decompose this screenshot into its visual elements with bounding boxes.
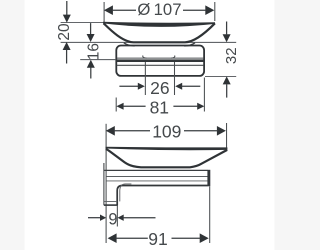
plate thin groove line: [117, 64, 204, 66]
svg-text:109: 109: [152, 121, 181, 141]
arm end cap: [207, 170, 210, 187]
dimension 81 right arrow: [197, 103, 204, 110]
extension line at groove level: [80, 59, 116, 61]
extension line at bowl bottom level: [61, 41, 237, 43]
bracket back line (wall side): [103, 163, 105, 205]
svg-text:9: 9: [108, 210, 117, 228]
arm bottom edge: [122, 185, 208, 187]
wall plate (top view outline): [116, 46, 204, 76]
dimension 91 right arrow: [200, 233, 209, 243]
svg-text:91: 91: [148, 229, 167, 249]
arm groove line 2: [107, 180, 208, 182]
dimension 9 right extension: [116, 206, 118, 227]
dimension Ø107 left extension line: [103, 2, 105, 23]
dish bowl underside (top view): [104, 23, 215, 42]
elbow inner: [120, 184, 132, 202]
dimension 20 bottom arrow: [63, 42, 71, 50]
dish bowl underside (side view): [106, 149, 228, 167]
svg-text:32: 32: [223, 47, 240, 64]
plate thick groove band: [117, 57, 204, 59]
right slot hook: [171, 56, 175, 59]
dimension 26 left arrow: [119, 85, 138, 87]
dimension 81 right extension: [203, 78, 205, 112]
white content panel: [25, 0, 275, 250]
dish rim (top view): [103, 22, 215, 27]
dimension 91 left arrow: [108, 233, 117, 243]
svg-text:Ø 107: Ø 107: [137, 0, 181, 19]
dish rim (side view): [106, 147, 228, 151]
arm groove line 1: [107, 176, 208, 178]
dimension Ø107 right arrow: [205, 5, 214, 15]
dimension 109 right extension: [226, 123, 228, 149]
dimension 91 right extension: [209, 187, 211, 244]
left fillet bowl-to-plate: [124, 43, 135, 46]
left screw slot vertical / 26 extension: [144, 62, 146, 95]
extension line at plate bottom right: [205, 75, 236, 77]
svg-text:20: 20: [56, 23, 73, 41]
dimension 9 right arrow: [118, 215, 124, 221]
dimension 20 top arrow: [66, 1, 68, 15]
dimension 32 top arrow: [226, 22, 228, 35]
dimension Ø107 left arrow: [104, 5, 113, 15]
right screw slot vertical / 26 extension: [174, 62, 176, 95]
svg-text:16: 16: [86, 43, 103, 60]
dimension 32 bottom arrow: [223, 76, 231, 84]
foot upper line: [104, 201, 117, 203]
rim left extension line: [61, 22, 104, 24]
dimension 9 left arrow: [88, 217, 100, 219]
left slot hook: [143, 56, 147, 59]
dimension Ø107 right extension line: [214, 2, 216, 21]
elbow outer: [117, 186, 122, 206]
dimension 109 left arrow: [106, 126, 115, 136]
svg-text:81: 81: [150, 97, 169, 117]
dimension 81 left arrow: [116, 103, 123, 110]
dimension 109 left extension / bracket front line: [105, 124, 107, 243]
dimension 16 top arrow: [90, 23, 92, 34]
dimension 81 left extension: [115, 98, 117, 112]
dimension 109 right arrow: [217, 126, 226, 136]
dimension 16 bottom arrow: [87, 60, 95, 68]
svg-text:26: 26: [150, 78, 169, 98]
arm top edge: [104, 169, 207, 171]
right fillet bowl-to-plate: [184, 43, 195, 46]
dimension 26 right arrow: [175, 83, 182, 90]
foot bottom line: [104, 204, 118, 206]
